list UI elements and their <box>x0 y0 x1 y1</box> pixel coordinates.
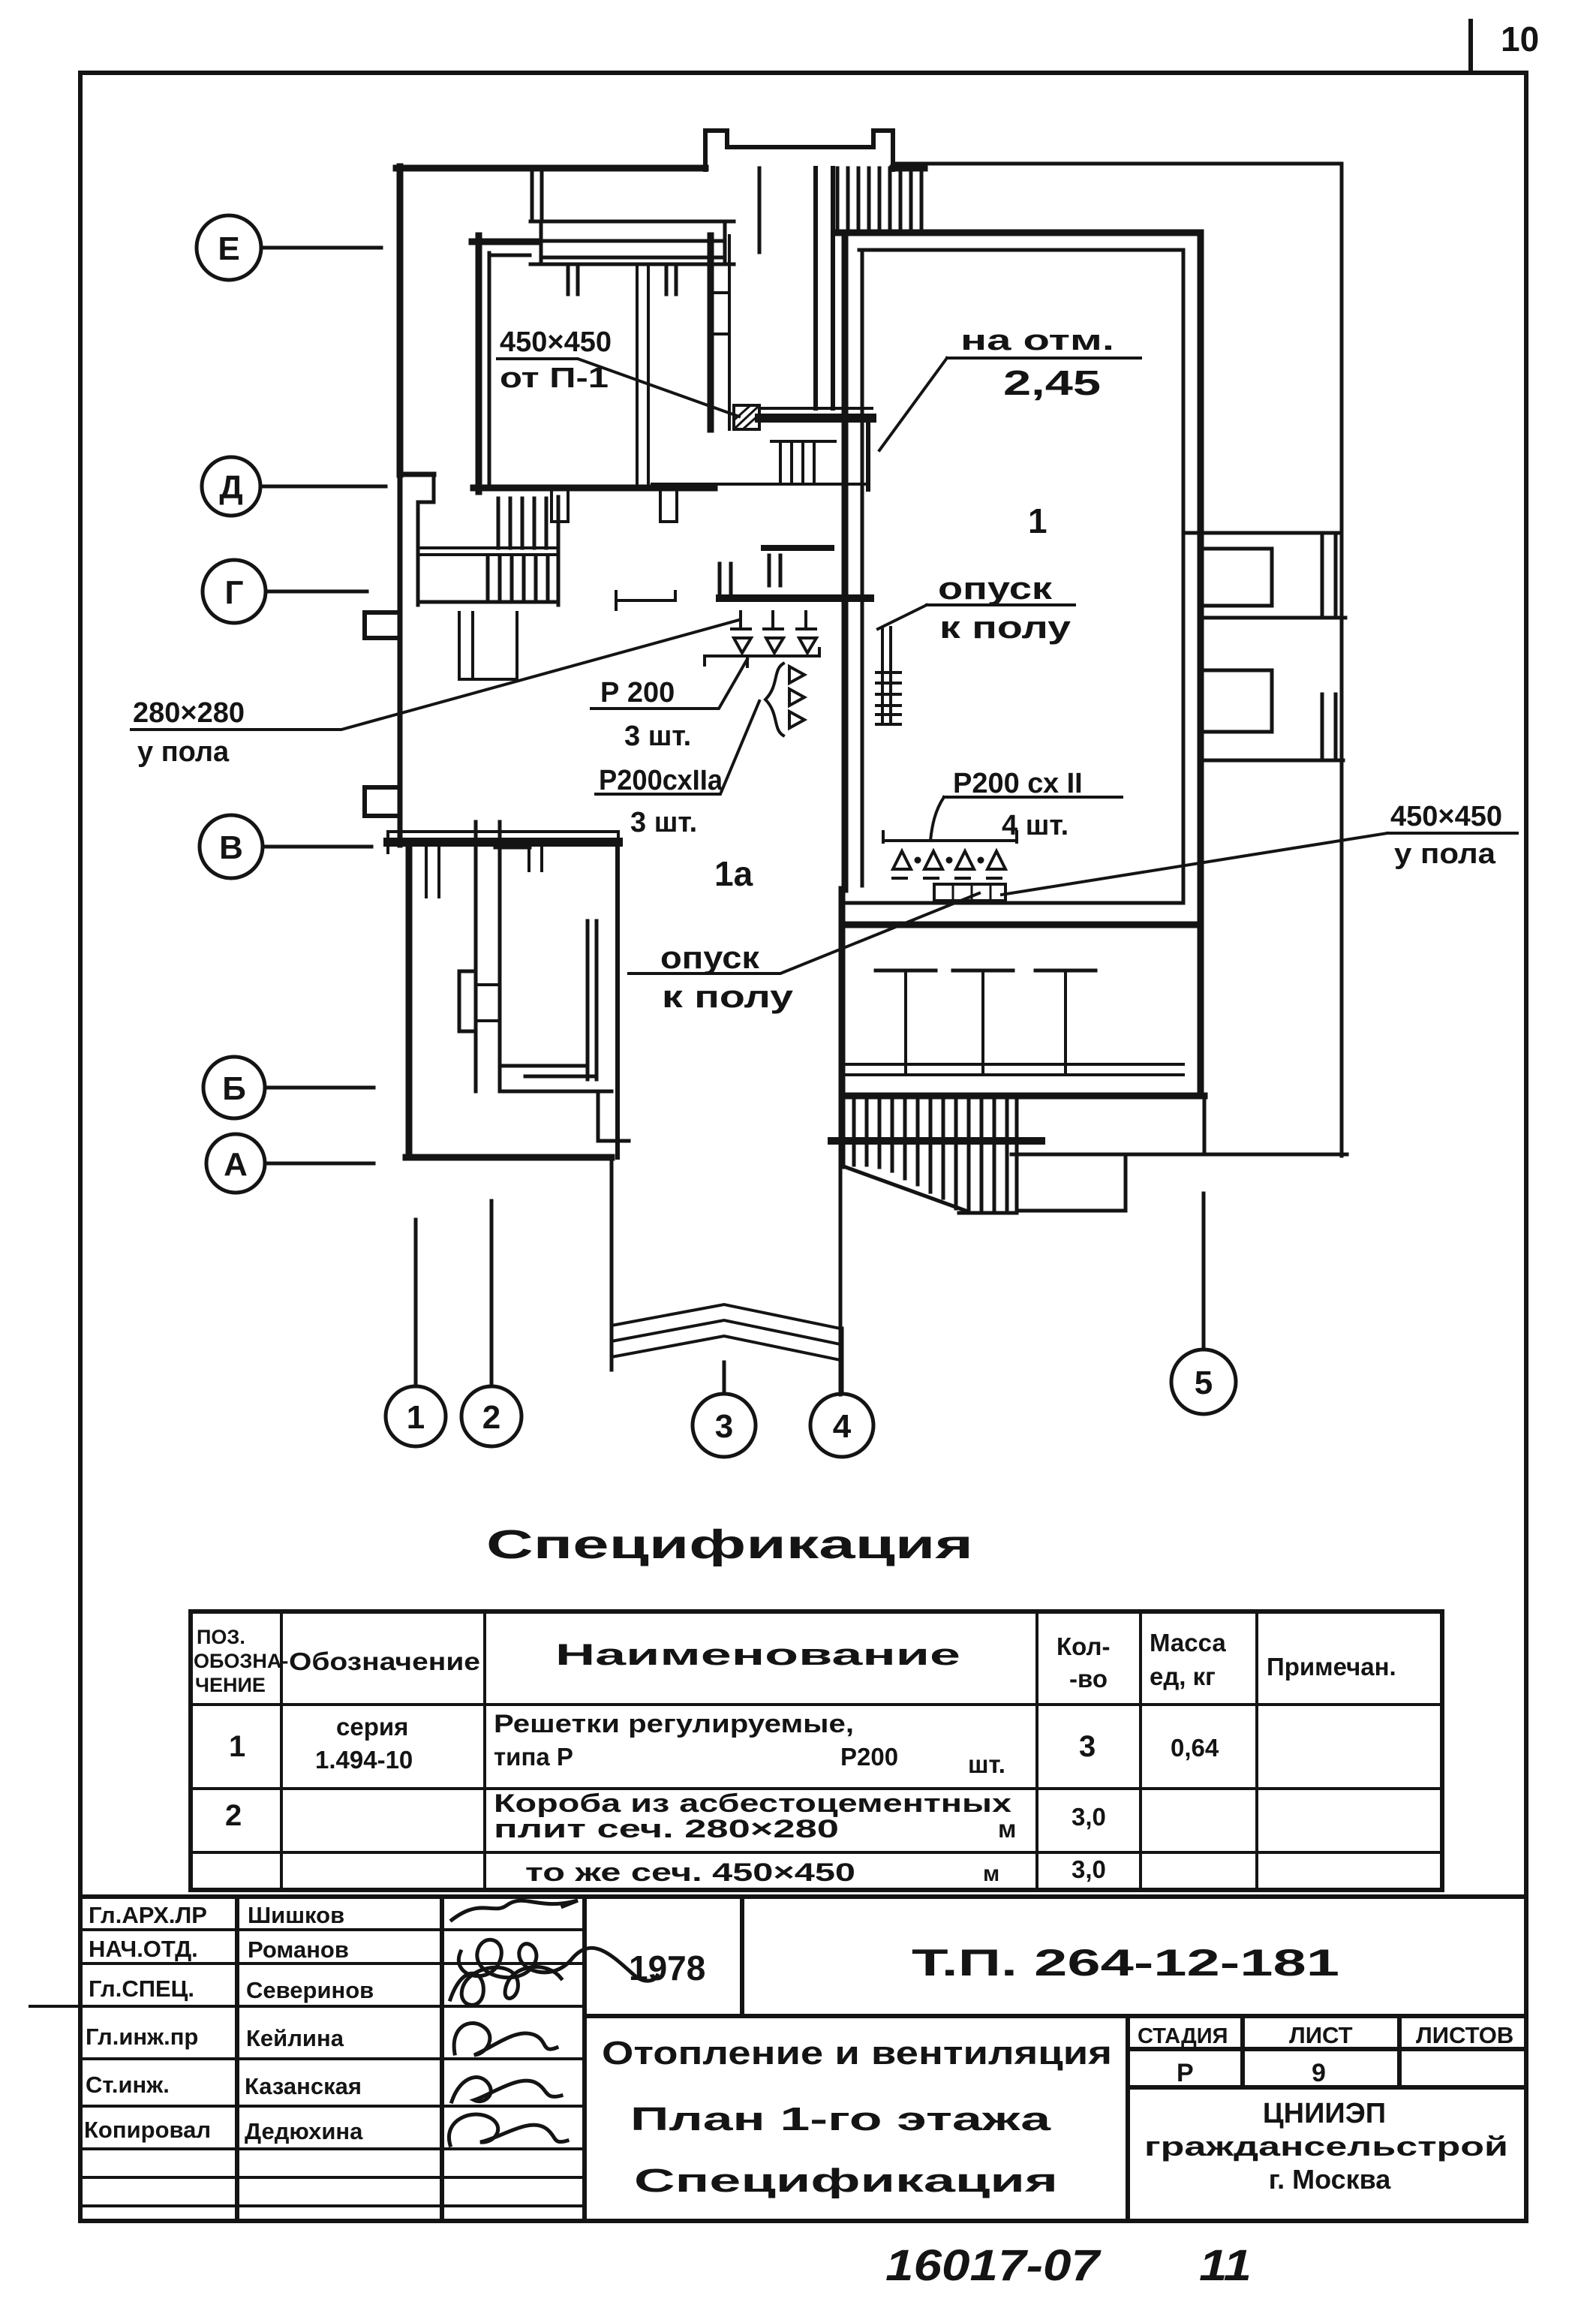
svg-text:280×280: 280×280 <box>133 697 245 729</box>
svg-text:Гл.СПЕЦ.: Гл.СПЕЦ. <box>89 1975 194 2002</box>
svg-text:9: 9 <box>1312 2059 1326 2087</box>
svg-text:План 1-го этажа: План 1-го этажа <box>630 2101 1051 2138</box>
svg-text:1: 1 <box>407 1399 425 1436</box>
svg-text:4 шт.: 4 шт. <box>1002 810 1069 841</box>
svg-text:г. Москва: г. Москва <box>1269 2164 1392 2195</box>
svg-text:ЛИСТ: ЛИСТ <box>1289 2022 1353 2048</box>
svg-text:Спецификация: Спецификация <box>634 2162 1058 2199</box>
svg-text:Примечан.: Примечан. <box>1267 1653 1396 1681</box>
svg-text:Шишков: Шишков <box>248 1902 344 1928</box>
svg-text:Р200 сх II: Р200 сх II <box>953 768 1083 799</box>
svg-text:2: 2 <box>482 1399 500 1436</box>
svg-text:10: 10 <box>1501 20 1539 59</box>
svg-text:16017-07: 16017-07 <box>885 2241 1102 2290</box>
svg-text:м: м <box>998 1815 1016 1843</box>
svg-text:опуск: опуск <box>938 570 1053 606</box>
svg-text:Г: Г <box>225 574 244 611</box>
svg-text:м: м <box>983 1861 999 1886</box>
svg-text:450×450: 450×450 <box>1390 801 1502 832</box>
svg-text:плит сеч. 280×280: плит сеч. 280×280 <box>494 1815 839 1843</box>
svg-text:Е: Е <box>218 230 239 267</box>
svg-text:Кейлина: Кейлина <box>246 2025 344 2051</box>
svg-text:ОБОЗНА-: ОБОЗНА- <box>194 1650 288 1672</box>
svg-text:Кол-: Кол- <box>1056 1632 1110 1660</box>
svg-text:3,0: 3,0 <box>1072 1855 1106 1883</box>
svg-text:СТАДИЯ: СТАДИЯ <box>1138 2024 1228 2048</box>
svg-text:ПОЗ.: ПОЗ. <box>197 1626 245 1648</box>
svg-text:Спецификация: Спецификация <box>486 1522 973 1567</box>
svg-text:у пола: у пола <box>137 736 230 768</box>
svg-text:2,45: 2,45 <box>1003 363 1101 402</box>
svg-text:3: 3 <box>715 1408 733 1445</box>
svg-text:к полу: к полу <box>939 609 1072 645</box>
svg-text:НАЧ.ОТД.: НАЧ.ОТД. <box>89 1936 198 1962</box>
svg-text:1: 1 <box>1028 501 1047 540</box>
svg-text:3 шт.: 3 шт. <box>624 721 691 752</box>
svg-text:Р 200: Р 200 <box>600 677 675 709</box>
svg-text:Д: Д <box>219 469 242 506</box>
svg-text:серия: серия <box>336 1713 408 1741</box>
svg-text:11: 11 <box>1199 2241 1252 2290</box>
svg-text:Р: Р <box>1177 2059 1194 2087</box>
svg-text:то же сеч. 450×450: то же сеч. 450×450 <box>525 1858 855 1887</box>
svg-text:3 шт.: 3 шт. <box>630 807 697 838</box>
svg-text:Романов: Романов <box>248 1936 349 1963</box>
svg-text:Р200схIIа: Р200схIIа <box>599 765 723 796</box>
svg-text:Б: Б <box>222 1070 246 1107</box>
svg-text:опуск: опуск <box>660 940 760 975</box>
svg-text:Гл.инж.пр: Гл.инж.пр <box>86 2024 198 2050</box>
svg-text:шт.: шт. <box>968 1750 1005 1778</box>
svg-text:5: 5 <box>1195 1365 1213 1401</box>
svg-text:450×450: 450×450 <box>500 326 612 358</box>
svg-text:Обозначение: Обозначение <box>289 1648 480 1675</box>
svg-text:Отопление и вентиляция: Отопление и вентиляция <box>602 2035 1112 2072</box>
svg-text:4: 4 <box>833 1408 852 1445</box>
svg-text:Решетки регулируемые,: Решетки регулируемые, <box>494 1710 854 1738</box>
svg-text:-во: -во <box>1069 1665 1108 1693</box>
svg-text:Масса: Масса <box>1150 1629 1226 1657</box>
svg-text:Ст.инж.: Ст.инж. <box>86 2072 170 2098</box>
svg-text:Северинов: Северинов <box>246 1977 374 2003</box>
svg-text:Р200: Р200 <box>840 1743 898 1771</box>
svg-text:ЦНИИЭП: ЦНИИЭП <box>1263 2098 1386 2129</box>
svg-text:1а: 1а <box>714 854 753 893</box>
svg-text:1978: 1978 <box>629 1948 705 1988</box>
svg-text:А: А <box>224 1146 248 1183</box>
svg-text:ед, кг: ед, кг <box>1150 1663 1216 1690</box>
svg-text:3,0: 3,0 <box>1072 1803 1106 1831</box>
svg-text:Т.П. 264-12-181: Т.П. 264-12-181 <box>912 1942 1339 1984</box>
svg-text:0,64: 0,64 <box>1171 1734 1219 1762</box>
svg-text:1: 1 <box>229 1730 245 1763</box>
svg-text:граждансельстрой: граждансельстрой <box>1144 2131 1508 2162</box>
svg-text:Короба из асбестоцементных: Короба из асбестоцементных <box>494 1789 1011 1818</box>
svg-text:ЛИСТОВ: ЛИСТОВ <box>1416 2022 1513 2048</box>
svg-text:типа Р: типа Р <box>494 1743 573 1771</box>
svg-text:Копировал: Копировал <box>84 2117 211 2143</box>
svg-text:2: 2 <box>225 1799 242 1832</box>
svg-text:ЧЕНИЕ: ЧЕНИЕ <box>195 1674 266 1696</box>
svg-text:к полу: к полу <box>662 979 794 1014</box>
svg-text:Наименование: Наименование <box>555 1638 960 1672</box>
svg-text:Дедюхина: Дедюхина <box>245 2118 363 2144</box>
svg-text:В: В <box>219 829 243 866</box>
svg-text:1.494-10: 1.494-10 <box>315 1746 413 1774</box>
svg-text:от П-1: от П-1 <box>500 363 609 394</box>
svg-text:у пола: у пола <box>1394 838 1496 870</box>
svg-text:на отм.: на отм. <box>960 325 1114 357</box>
svg-text:3: 3 <box>1079 1730 1096 1763</box>
svg-text:Казанская: Казанская <box>245 2073 362 2099</box>
svg-text:Гл.АРХ.ЛР: Гл.АРХ.ЛР <box>89 1902 207 1928</box>
